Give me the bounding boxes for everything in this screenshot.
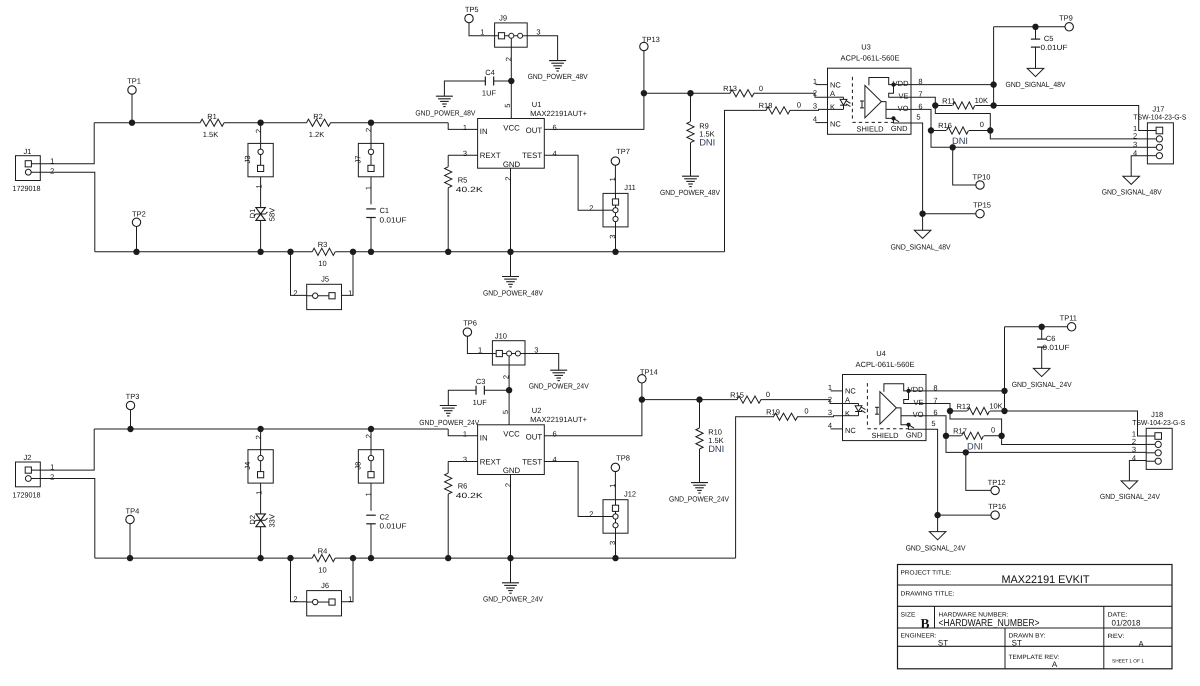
wire R15 to U4 pin A: [761, 400, 843, 404]
svg-text:IN: IN: [480, 127, 488, 136]
svg-text:R15: R15: [730, 391, 744, 400]
svg-text:DNI: DNI: [967, 442, 983, 452]
wire R11 left jog to R16 right: [935, 106, 990, 131]
optocoupler U3 ACPL-061L-560E: [828, 68, 912, 134]
svg-text:1: 1: [813, 77, 817, 86]
resistor R15 0: [737, 396, 761, 403]
wire bottom rail left: [95, 251, 312, 253]
svg-text:GND_SIGNAL_48V: GND_SIGNAL_48V: [1102, 187, 1162, 196]
svg-text:TEST: TEST: [522, 457, 542, 466]
svg-text:10: 10: [318, 259, 326, 268]
node junction C5: [1032, 24, 1038, 30]
node junction R5: [445, 249, 451, 255]
svg-text:J2: J2: [24, 453, 32, 462]
wire R5 to bottom rail: [447, 188, 449, 252]
wire rail to J8: [370, 429, 372, 450]
svg-text:GND_POWER_24V: GND_POWER_24V: [529, 382, 589, 391]
test point TP3: [126, 401, 134, 409]
node junction J6 left: [287, 555, 293, 561]
wire C4 to ground: [444, 81, 485, 96]
jumper J7: [358, 143, 383, 176]
wire U4 VE pin 7 to R12: [926, 404, 950, 412]
node junction TP2: [133, 249, 139, 255]
svg-text:1: 1: [364, 186, 373, 190]
IC U1 MAX22191AUT+: [478, 119, 545, 169]
IC U2 MAX22191AUT+: [478, 425, 545, 475]
wire VDD node to R11 right: [993, 85, 995, 106]
wire: [330, 122, 448, 124]
svg-text:6: 6: [933, 408, 937, 417]
wire top rail segment: [94, 122, 200, 124]
wire C6 to signal ground: [1041, 347, 1043, 368]
test point TP15: [923, 213, 976, 215]
wire C3 to VCC node: [484, 389, 509, 391]
svg-text:R6: R6: [458, 482, 468, 491]
svg-text:10K: 10K: [975, 96, 988, 105]
svg-text:0: 0: [797, 100, 801, 109]
svg-text:1: 1: [463, 123, 467, 132]
svg-text:7: 7: [933, 396, 937, 405]
svg-text:1.5K: 1.5K: [203, 130, 218, 139]
svg-text:NC: NC: [830, 120, 841, 129]
wire bottom rail left: [95, 557, 312, 559]
node junction R9: [687, 90, 693, 96]
capacitor C5 0.01UF: [1035, 27, 1037, 39]
wire R17 right to J18 pin 2: [1002, 436, 1147, 445]
node junction VDD: [1001, 388, 1007, 394]
capacitor C3 1UF: [475, 386, 477, 395]
power ground GND_POWER_24V: [550, 369, 567, 371]
svg-text:VE: VE: [898, 92, 908, 101]
svg-text:2: 2: [503, 177, 512, 181]
test point TP2: [132, 218, 140, 226]
svg-text:TP7: TP7: [616, 147, 630, 156]
resistor R5 40.2K: [447, 155, 449, 167]
wire R19 to U4 pin K: [797, 416, 843, 417]
wire TP13 down: [643, 51, 645, 93]
wire J3 to D1: [260, 177, 262, 208]
svg-text:4: 4: [828, 421, 832, 430]
svg-text:2: 2: [254, 435, 263, 439]
U4 pin 1 stub: [831, 390, 843, 392]
wire R17 left down to J18 pin 3: [946, 436, 1146, 453]
node junction J12: [612, 555, 618, 561]
node junction J6 right: [350, 555, 356, 561]
node junction R1/J3: [257, 120, 263, 126]
test point TP5: [465, 14, 473, 22]
svg-text:2: 2: [293, 595, 297, 604]
svg-text:SIZE: SIZE: [901, 611, 916, 618]
jumper J12: [603, 500, 628, 534]
svg-text:1: 1: [828, 383, 832, 392]
svg-text:C1: C1: [380, 206, 390, 215]
svg-text:0: 0: [759, 84, 763, 93]
svg-text:1729018: 1729018: [13, 184, 41, 193]
wire J10 pin2 to VCC node: [508, 365, 510, 390]
svg-text:R1: R1: [207, 112, 217, 121]
svg-text:SHIELD: SHIELD: [872, 431, 900, 440]
wire R9 node to R13: [691, 92, 731, 94]
svg-text:40.2K: 40.2K: [456, 491, 483, 500]
svg-text:6: 6: [918, 102, 922, 111]
wire to R9 node: [644, 92, 691, 94]
U3 pin 1 stub: [816, 84, 828, 86]
wire TP6 to J10 pin1: [467, 336, 492, 353]
wire VDD node to R11 right: [1004, 391, 1006, 411]
svg-text:6: 6: [553, 123, 557, 132]
node junction R17 left: [943, 433, 949, 439]
svg-text:MAX22191 EVKIT: MAX22191 EVKIT: [1002, 574, 1090, 586]
svg-text:4: 4: [1132, 453, 1136, 462]
power ground GND_POWER_48V: [549, 60, 566, 62]
svg-text:DNI: DNI: [699, 137, 715, 147]
svg-text:U2: U2: [532, 406, 542, 415]
title block: [898, 565, 1173, 669]
wire J9 pin2 to VCC node: [510, 47, 512, 81]
wire top rail: [94, 428, 448, 430]
wire TP1 to rail: [131, 94, 133, 123]
node junction R6: [445, 555, 451, 561]
TVS diode D1 58V: [256, 208, 265, 214]
node junction C3/VCC: [506, 387, 512, 393]
node junction TP16: [934, 512, 940, 518]
svg-text:NC: NC: [830, 80, 841, 89]
svg-text:R18: R18: [759, 101, 773, 110]
svg-text:1: 1: [463, 430, 467, 439]
svg-text:GND_SIGNAL_24V: GND_SIGNAL_24V: [1012, 380, 1072, 389]
svg-text:5: 5: [916, 113, 920, 122]
svg-text:NC: NC: [845, 387, 856, 396]
wire bottom rail to R19: [736, 417, 774, 558]
node junction R17 right: [998, 433, 1004, 439]
svg-text:58V: 58V: [268, 208, 277, 221]
node junction TP10: [950, 144, 956, 150]
node junction VDD: [990, 81, 996, 87]
node junction J5 left: [287, 249, 293, 255]
svg-text:2: 2: [293, 288, 297, 297]
resistor R6 40.2K: [447, 462, 449, 474]
wire TP2 to rail: [136, 227, 138, 252]
svg-text:GND_SIGNAL_24V: GND_SIGNAL_24V: [906, 544, 966, 553]
svg-text:TP10: TP10: [973, 173, 991, 182]
svg-text:4: 4: [553, 149, 557, 158]
svg-text:J6: J6: [321, 581, 329, 590]
node junction R12 right: [1001, 408, 1007, 414]
wire U2 REXT pin 3 to R6: [448, 461, 477, 463]
node junction R12 left: [947, 408, 953, 414]
wire to signal ground GND_SIGNAL_24V: [937, 515, 939, 532]
test point TP16: [938, 514, 991, 516]
wire U4 VO pin 6 to R17: [926, 416, 946, 436]
svg-text:VO: VO: [898, 104, 909, 113]
svg-text:VCC: VCC: [503, 430, 520, 439]
svg-text:REV:: REV:: [1108, 633, 1125, 640]
optocoupler U4 ACPL-061L-560E: [843, 375, 927, 441]
svg-text:GND_POWER_24V: GND_POWER_24V: [419, 418, 479, 427]
svg-text:R17: R17: [953, 426, 967, 435]
node junction C6: [1039, 324, 1045, 330]
jumper J3: [248, 143, 273, 176]
wire TP8 to J12: [614, 472, 616, 500]
wire J7 to C1: [370, 177, 372, 205]
node junction R2/J7: [368, 120, 374, 126]
wire TP14 down: [641, 383, 643, 400]
svg-text:TP5: TP5: [465, 5, 479, 14]
svg-text:TP9: TP9: [1059, 13, 1073, 22]
node junction J4: [257, 426, 263, 432]
wire rail to J6 pin1: [342, 558, 354, 602]
wire rail to J6 pin2: [291, 558, 307, 602]
wire to signal ground GND_SIGNAL_48V: [922, 214, 924, 231]
svg-text:VO: VO: [913, 410, 924, 419]
svg-text:J4: J4: [243, 462, 252, 470]
resistor R13 0: [730, 90, 754, 97]
signal ground GND_SIGNAL_24V at C6: [1033, 368, 1050, 376]
node junction R16 left: [928, 127, 934, 133]
U3 pin 4 stub: [816, 122, 828, 124]
wire C3 to ground: [448, 390, 476, 405]
svg-text:DRAWING TITLE:: DRAWING TITLE:: [901, 590, 955, 597]
resistor R16 0 DNI: [931, 130, 946, 132]
resistor R18 0: [766, 107, 790, 114]
svg-text:R2: R2: [313, 112, 323, 121]
wire J12 pin3 to bottom rail: [615, 533, 617, 558]
svg-text:J12: J12: [624, 489, 636, 498]
svg-text:C3: C3: [476, 377, 486, 386]
svg-text:3: 3: [608, 541, 617, 545]
wire VCC node to U1: [510, 81, 512, 119]
resistor R9 1.5K DNI: [690, 93, 692, 121]
svg-text:GND_POWER_48V: GND_POWER_48V: [660, 188, 720, 197]
node junction C1: [368, 249, 374, 255]
node junction TP15: [919, 211, 925, 217]
svg-text:<HARDWARE_NUMBER>: <HARDWARE_NUMBER>: [939, 618, 1040, 629]
jumper J6: [307, 591, 342, 616]
svg-text:4: 4: [553, 455, 557, 464]
svg-text:1: 1: [348, 595, 352, 604]
svg-text:40.2K: 40.2K: [456, 185, 483, 194]
node junction TP14: [639, 396, 645, 402]
wire U3 VE pin 7 to R11: [911, 97, 935, 105]
svg-text:GND: GND: [503, 160, 521, 169]
node junction R11 left: [932, 102, 938, 108]
svg-text:C5: C5: [1044, 34, 1054, 43]
svg-text:1729018: 1729018: [13, 490, 41, 499]
svg-text:J10: J10: [495, 331, 507, 340]
svg-text:1: 1: [608, 177, 617, 181]
svg-text:2: 2: [254, 129, 263, 133]
capacitor C2 0.01UF: [366, 514, 376, 516]
svg-text:ACPL-061L-560E: ACPL-061L-560E: [841, 54, 900, 63]
svg-text:GND_SIGNAL_48V: GND_SIGNAL_48V: [891, 242, 951, 251]
svg-text:NC: NC: [845, 426, 856, 435]
svg-text:SHEET 1 OF 1: SHEET 1 OF 1: [1112, 658, 1144, 664]
svg-text:GND_SIGNAL_48V: GND_SIGNAL_48V: [1006, 80, 1066, 89]
signal ground GND_SIGNAL_24V at J18: [1121, 481, 1138, 489]
node junction TP13: [641, 90, 647, 96]
wire R16 left down to J17 pin 3: [931, 131, 1147, 148]
svg-text:TSW-104-23-G-S: TSW-104-23-G-S: [1133, 113, 1186, 122]
svg-text:R4: R4: [318, 546, 328, 555]
svg-text:OUT: OUT: [526, 432, 543, 441]
svg-text:K: K: [845, 409, 850, 418]
svg-text:C6: C6: [1046, 334, 1056, 343]
svg-text:3: 3: [608, 235, 617, 239]
resistor R10 1.5K DNI: [699, 400, 701, 428]
power ground GND_POWER_48V below rail: [510, 252, 512, 276]
wire bottom rail right: [335, 251, 724, 253]
wire to R9 node: [642, 399, 700, 401]
node junction R10: [696, 396, 702, 402]
test point TP9: [1065, 23, 1073, 31]
resistor R2 1.2K: [307, 119, 331, 126]
wire C5 to signal ground: [1035, 47, 1037, 68]
svg-text:J11: J11: [624, 183, 636, 192]
svg-text:GND: GND: [891, 124, 908, 133]
svg-text:R12: R12: [957, 402, 971, 411]
svg-text:1: 1: [478, 346, 482, 355]
node junction D1: [257, 249, 263, 255]
svg-text:5: 5: [503, 104, 512, 108]
node junction R11 right: [990, 102, 996, 108]
wire U1 OUT pin 6: [544, 93, 644, 129]
svg-text:10: 10: [318, 565, 326, 574]
power ground GND_POWER_48V at C4: [436, 95, 453, 97]
node junction TP12: [963, 449, 969, 455]
node junction U1 GND: [507, 249, 513, 255]
wire C4 to VCC node: [494, 80, 512, 82]
wire TP3 to rail: [130, 410, 132, 429]
node junction U2 GND: [507, 555, 513, 561]
svg-text:SHIELD: SHIELD: [857, 125, 885, 134]
svg-text:TP12: TP12: [988, 478, 1006, 487]
svg-text:6: 6: [553, 430, 557, 439]
svg-text:1UF: 1UF: [482, 89, 497, 98]
test point TP4: [126, 515, 134, 523]
svg-text:2: 2: [813, 89, 817, 98]
test point TP1: [128, 86, 136, 94]
svg-text:ENGINEER:: ENGINEER:: [901, 632, 937, 639]
power ground GND_POWER_48V below R9: [682, 175, 699, 177]
svg-text:J8: J8: [353, 462, 362, 470]
jumper J10: [492, 341, 525, 365]
wire VDD node up to C5 row: [993, 27, 995, 85]
svg-text:GND_POWER_48V: GND_POWER_48V: [415, 109, 475, 118]
svg-text:3: 3: [536, 28, 540, 37]
svg-text:ACPL-061L-560E: ACPL-061L-560E: [856, 360, 915, 369]
svg-text:ST: ST: [1012, 639, 1022, 648]
test point TP11: [1067, 323, 1075, 331]
svg-text:7: 7: [918, 90, 922, 99]
svg-text:R13: R13: [723, 84, 737, 93]
wire U1 TEST pin 4 to J11: [544, 155, 603, 210]
wire TP4 to rail: [129, 524, 131, 558]
wire C2 to bottom rail: [370, 524, 372, 558]
svg-text:4: 4: [813, 115, 817, 124]
svg-text:8: 8: [933, 384, 937, 393]
svg-text:0: 0: [991, 426, 995, 435]
node junction TP4: [127, 555, 133, 561]
svg-text:0.01UF: 0.01UF: [380, 522, 407, 531]
svg-text:VCC: VCC: [503, 123, 520, 132]
wire rail to J5 pin2: [291, 252, 307, 296]
svg-text:2: 2: [504, 57, 513, 61]
wire U4 GND pin 5 down: [926, 429, 938, 515]
svg-text:8: 8: [918, 77, 922, 86]
svg-text:TP13: TP13: [642, 35, 660, 44]
node junction TP3: [127, 426, 133, 432]
test point TP14: [638, 375, 646, 383]
svg-text:R3: R3: [318, 240, 328, 249]
wire C1 to bottom rail: [370, 218, 372, 252]
svg-text:REXT: REXT: [480, 151, 501, 160]
connector J2 (1729018): [16, 462, 41, 487]
wire bottom rail right: [335, 557, 735, 559]
svg-text:TP16: TP16: [988, 502, 1006, 511]
signal ground GND_SIGNAL_48V at C5: [1027, 68, 1044, 76]
svg-text:MAX22191AUT+: MAX22191AUT+: [530, 415, 588, 424]
svg-text:4: 4: [1133, 149, 1137, 158]
wire C5 row: [994, 26, 1065, 28]
svg-text:GND_POWER_24V: GND_POWER_24V: [483, 595, 543, 604]
svg-text:J3: J3: [243, 155, 252, 163]
test point TP6: [463, 328, 471, 336]
node junction J5 right: [350, 249, 356, 255]
jumper J5: [307, 284, 342, 309]
wire U2 GND pin 2 to bottom rail: [510, 475, 512, 559]
svg-text:3: 3: [813, 102, 817, 111]
svg-text:0.01UF: 0.01UF: [380, 215, 407, 224]
svg-text:TP11: TP11: [1060, 313, 1077, 322]
wire rail to U2 IN pin 1: [448, 429, 477, 436]
wire J2 pin1 to top rail: [31, 429, 94, 470]
svg-text:33V: 33V: [268, 514, 277, 527]
wire J17 pin 4 to signal ground: [1131, 156, 1147, 176]
wire D2 to bottom rail: [260, 527, 262, 558]
svg-text:1: 1: [254, 184, 263, 188]
wire rail to J7: [370, 123, 372, 144]
wire rail to J3: [260, 123, 262, 144]
power ground GND_POWER_24V below rail: [510, 558, 512, 583]
wire rail to U1 IN pin 1: [448, 123, 477, 130]
svg-text:GND_POWER_48V: GND_POWER_48V: [528, 72, 588, 81]
test point TP13: [640, 42, 648, 50]
svg-text:1: 1: [254, 491, 263, 495]
wire U1 GND pin 2 to bottom rail: [510, 168, 512, 252]
wire J2 pin2 to bottom rail: [31, 479, 95, 559]
wire VCC node to U2: [508, 390, 510, 425]
svg-text:TP14: TP14: [640, 367, 658, 376]
resistor R12 10K: [950, 410, 967, 412]
svg-text:2: 2: [502, 375, 511, 379]
svg-text:DNI: DNI: [708, 444, 724, 454]
svg-text:GND_POWER_48V: GND_POWER_48V: [483, 288, 543, 297]
power ground GND_POWER_24V below R10: [691, 482, 708, 484]
svg-text:OUT: OUT: [526, 126, 543, 135]
wire bottom rail to R18: [725, 110, 767, 251]
header J18 TSW-104-23-G-S: [1146, 428, 1172, 469]
svg-text:GND: GND: [906, 430, 923, 439]
svg-text:B: B: [920, 616, 929, 631]
svg-text:A: A: [1138, 639, 1144, 648]
svg-text:ST: ST: [938, 638, 948, 647]
wire J10 pin3 to ground: [525, 354, 559, 371]
wire J1 pin1 to top rail: [31, 123, 94, 164]
svg-text:2: 2: [589, 203, 593, 212]
wire J11 pin3 to bottom rail: [615, 227, 617, 252]
wire J9 pin3 to ground: [527, 36, 557, 61]
connector J1 (1729018): [16, 156, 41, 181]
